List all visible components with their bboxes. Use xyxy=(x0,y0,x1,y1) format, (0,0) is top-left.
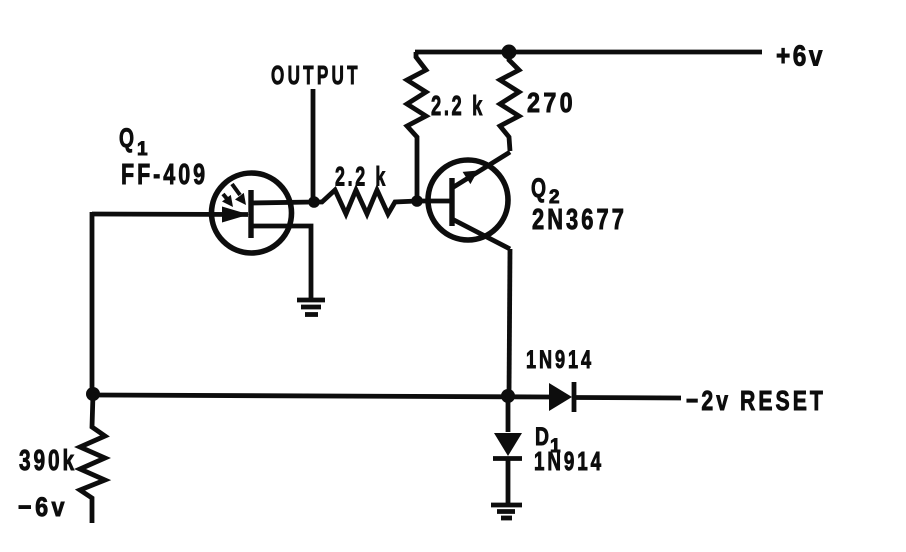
svg-text:2N3677: 2N3677 xyxy=(532,204,627,235)
node junction dot at +6v rail / 270 top xyxy=(502,45,517,60)
Q1 emitter arrowhead xyxy=(222,207,249,223)
svg-text:1N914: 1N914 xyxy=(526,345,594,374)
transistor Q1 circle xyxy=(212,173,292,253)
Q2 collector arrowhead xyxy=(463,171,478,185)
node B dot (Q2 base node) xyxy=(411,195,423,207)
Q1 light arrow 1 xyxy=(232,184,240,195)
svg-text:−6v: −6v xyxy=(18,492,68,522)
wire Q2 emitter down xyxy=(509,249,510,396)
svg-text:−2v RESET: −2v RESET xyxy=(686,386,826,416)
ground (Q1 base) xyxy=(297,298,325,303)
wire Q1 emitter (left lead) xyxy=(92,212,248,217)
resistor 2.2k (vertical, collector load) xyxy=(407,52,426,200)
svg-text:FF-409: FF-409 xyxy=(121,159,208,191)
svg-text:270: 270 xyxy=(527,88,576,118)
svg-text:1N914: 1N914 xyxy=(534,446,604,476)
wire Q1 base lead to ground xyxy=(251,226,311,298)
svg-text:2.2 k: 2.2 k xyxy=(335,161,388,192)
svg-text:390k: 390k xyxy=(19,445,77,477)
Q2 collector diagonal xyxy=(452,152,510,188)
wire +6v rail xyxy=(415,50,762,55)
transistor Q1 base bar xyxy=(248,190,253,238)
wire Q1 collector to node A xyxy=(251,202,314,203)
diode D1 (vertical) xyxy=(506,396,511,432)
resistor 390k xyxy=(80,394,105,523)
node A dot (output node) xyxy=(308,196,320,208)
svg-text:Q: Q xyxy=(119,123,134,153)
Q1 light arrow 2 xyxy=(223,194,228,200)
wire reset line right segment xyxy=(576,395,681,400)
svg-text:Q: Q xyxy=(531,173,546,203)
wire D1 cathode to ground xyxy=(506,459,511,503)
diode 1N914 (horizontal) xyxy=(549,383,572,411)
wire reset line left segment xyxy=(93,395,549,397)
Q2 emitter diagonal xyxy=(452,219,510,249)
wire left vertical (emitter to reset line) xyxy=(90,212,95,394)
resistor 270 xyxy=(500,52,519,151)
wire OUTPUT stem xyxy=(311,89,316,202)
svg-text:1: 1 xyxy=(137,139,148,160)
wire Q2 base xyxy=(417,199,452,204)
transistor Q2 circle xyxy=(428,160,508,240)
node dot (emitter/diode junction) xyxy=(501,389,515,403)
svg-text:OUTPUT: OUTPUT xyxy=(271,60,361,90)
resistor 2.2k (horizontal, base) xyxy=(314,190,417,214)
svg-text:+6v: +6v xyxy=(776,40,825,72)
svg-text:2.2 k: 2.2 k xyxy=(431,91,485,122)
ground (D1) xyxy=(491,503,522,508)
node dot (reset line / 390k) xyxy=(86,387,100,401)
transistor Q2 base bar xyxy=(449,178,454,226)
